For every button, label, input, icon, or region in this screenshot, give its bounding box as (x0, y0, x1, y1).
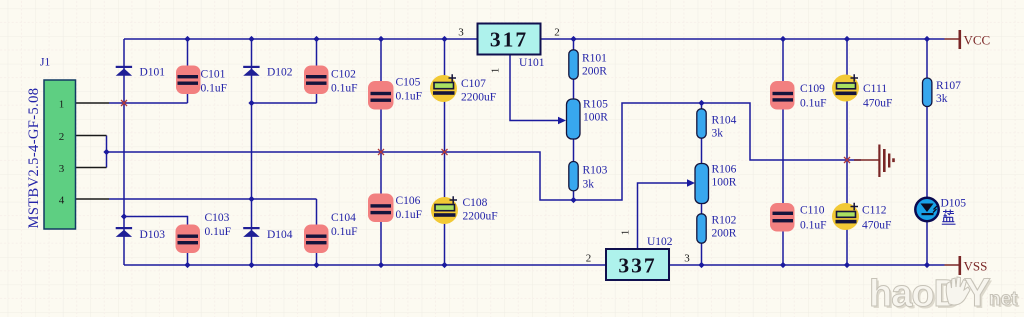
svg-text:R104: R104 (712, 115, 737, 127)
wire bridge column D102/D104 (251, 39, 253, 265)
svg-text:U101: U101 (519, 57, 545, 69)
wire C109-C110 middle lead (782, 100, 784, 212)
J1 pin stubs (76, 103, 110, 199)
svg-text:C112: C112 (862, 205, 887, 217)
svg-text:0.1uF: 0.1uF (201, 83, 228, 95)
svg-text:100R: 100R (583, 112, 608, 124)
svg-text:D102: D102 (267, 67, 293, 79)
svg-text:0.1uF: 0.1uF (800, 98, 827, 110)
label D105 colour 蓝 (drawn) (942, 210, 956, 225)
svg-text:D105: D105 (941, 198, 967, 210)
svg-text:317: 317 (490, 28, 528, 52)
capacitor C103 (176, 225, 201, 254)
ground symbol (854, 145, 895, 178)
wire left bridge column D101/D103 (123, 39, 125, 265)
junction C112 bottom (844, 262, 850, 268)
svg-text:C101: C101 (201, 69, 226, 81)
wire top VCC bus (124, 38, 945, 40)
svg-text:1: 1 (59, 99, 65, 111)
svg-text:VSS: VSS (964, 259, 988, 274)
regulator U102 337 (606, 249, 669, 280)
wire C111-C112 middle lead (846, 95, 848, 212)
svg-text:R105: R105 (583, 99, 608, 111)
junction R103 bottom (570, 197, 576, 203)
adjustable resistor R106 (695, 164, 709, 204)
svg-text:D103: D103 (140, 229, 166, 241)
svg-text:1: 1 (490, 68, 502, 74)
svg-text:2200uF: 2200uF (461, 92, 496, 104)
wire AC2 row from J1 pin4 (109, 198, 317, 200)
connector J1 (44, 80, 76, 229)
diode D104 (243, 227, 259, 237)
wire C105 upper lead (380, 39, 382, 92)
resistor R102 (697, 214, 706, 243)
svg-text:C109: C109 (800, 83, 825, 95)
junction C106 bottom (378, 262, 384, 268)
svg-text:0.1uF: 0.1uF (396, 209, 423, 221)
svg-text:3: 3 (59, 163, 65, 175)
resistor R101 (569, 50, 578, 79)
wire C109 upper lead (782, 39, 784, 92)
wire J1 pin2-pin3 bracket (106, 136, 108, 168)
svg-text:C111: C111 (863, 83, 887, 95)
junction D105 bottom (924, 262, 930, 268)
electrolytic capacitor C112 (832, 203, 859, 230)
resistor R103 (569, 162, 578, 191)
svg-text:J1: J1 (40, 57, 50, 69)
junction D102 top (248, 36, 254, 42)
wire C104 lower lead (316, 244, 318, 266)
wire AC1 row from J1 pin1 (109, 102, 188, 104)
arrow into R105 (558, 117, 566, 124)
svg-text:3: 3 (458, 27, 464, 39)
svg-text:0.1uF: 0.1uF (331, 226, 358, 238)
svg-text:3k: 3k (583, 179, 595, 191)
svg-text:3k: 3k (936, 93, 948, 105)
pin stub J1-3 (76, 167, 107, 169)
junction D102 bottom AC1 (248, 100, 254, 106)
svg-text:0.1uF: 0.1uF (331, 83, 358, 95)
svg-text:3k: 3k (712, 128, 724, 140)
junction C110 bottom (780, 262, 786, 268)
svg-text:2: 2 (554, 27, 560, 39)
svg-text:C105: C105 (396, 77, 421, 89)
no-ERC cross at C107 column / ground rail (442, 149, 448, 155)
svg-text:C107: C107 (461, 78, 486, 90)
svg-text:R101: R101 (582, 53, 607, 65)
junction J1 pins 2-3 to ground rail (103, 149, 109, 155)
junction R102 bottom (698, 262, 704, 268)
svg-text:MSTBV2.5-4-GF-5.08: MSTBV2.5-4-GF-5.08 (26, 88, 42, 229)
svg-text:C108: C108 (463, 197, 488, 209)
capacitor C110 (770, 203, 795, 232)
junction C108 bottom (441, 262, 447, 268)
capacitor C101 (176, 66, 201, 95)
wire U102 pin1 to R106 (638, 183, 688, 249)
junction R101 top (570, 36, 576, 42)
LED D105 (915, 198, 938, 221)
svg-text:4: 4 (59, 195, 65, 207)
svg-text:1: 1 (620, 230, 632, 236)
diode D103 (116, 227, 132, 237)
regulator U101 317 (478, 24, 541, 55)
capacitor C104 (304, 225, 329, 254)
junction C103 bottom (184, 262, 190, 268)
wire C101 upper lead (187, 39, 189, 76)
arrow into R106 (687, 179, 695, 186)
diode D101 (116, 66, 132, 76)
wire R101-R105-R103 column (573, 39, 575, 200)
junction R107 top (924, 36, 930, 42)
svg-text:C110: C110 (800, 205, 825, 217)
junction D104 bottom (248, 262, 254, 268)
svg-text:0.1uF: 0.1uF (205, 226, 232, 238)
svg-text:R107: R107 (936, 80, 961, 92)
wire bottom VSS bus (124, 264, 945, 266)
pin stub J1-2 (76, 135, 107, 137)
junction D104 top AC2 (248, 196, 254, 202)
svg-text:R103: R103 (583, 165, 608, 177)
svg-text:0.1uF: 0.1uF (800, 220, 827, 232)
svg-text:C106: C106 (396, 195, 421, 207)
watermark haodiy.net (869, 271, 1020, 317)
svg-text:2: 2 (59, 131, 65, 143)
svg-text:R102: R102 (712, 215, 737, 227)
no-ERC cross at D101 column / AC1 row (121, 100, 127, 106)
wire C104 upper lead (316, 199, 318, 234)
junction C102 top (313, 36, 319, 42)
svg-text:2: 2 (586, 253, 592, 265)
junction C109 top (780, 36, 786, 42)
wire C110 lower lead (782, 223, 784, 266)
wire C107 upper lead (444, 39, 446, 83)
svg-text:D104: D104 (267, 229, 293, 241)
svg-text:470uF: 470uF (862, 220, 891, 232)
junction C107 top (441, 36, 447, 42)
wire U101 pin1 to R105 (510, 55, 558, 121)
pin stub J1-1 (76, 102, 110, 104)
power port VSS (945, 256, 988, 275)
wire C107-C108 middle lead (444, 95, 446, 205)
svg-text:200R: 200R (712, 228, 737, 240)
svg-text:2200uF: 2200uF (463, 211, 498, 223)
wire C111 upper lead (846, 39, 848, 83)
electrolytic capacitor C108 (431, 196, 458, 224)
junction C105 top (378, 36, 384, 42)
resistor R104 (697, 109, 706, 138)
wire R104-R106-R102 column (701, 103, 703, 265)
electrolytic capacitor C107 (430, 74, 457, 102)
no-ERC cross at C111 column / ground rail (844, 157, 850, 163)
svg-text:VCC: VCC (964, 33, 991, 48)
svg-text:C103: C103 (205, 212, 230, 224)
adjustable resistor R105 (567, 99, 581, 139)
svg-text:R106: R106 (712, 164, 737, 176)
wire C103 lower lead (187, 244, 189, 265)
junction R104 top (698, 100, 704, 106)
capacitor C109 (770, 81, 795, 110)
wire C102 upper lead (316, 39, 318, 76)
wire C101 lower lead (187, 85, 189, 104)
capacitor C102 (304, 66, 329, 95)
wire middle ground rail (107, 103, 862, 200)
wire AC1 row D102 to C102 (252, 102, 317, 104)
svg-text:0.1uF: 0.1uF (396, 91, 423, 103)
svg-text:337: 337 (618, 254, 656, 278)
electrolytic capacitor C111 (832, 74, 859, 101)
resistor R107 (923, 78, 932, 107)
svg-text:U102: U102 (647, 236, 673, 248)
junction C111 top (844, 36, 850, 42)
wire C112 lower lead (846, 223, 848, 265)
junction C101 top (184, 36, 190, 42)
svg-text:100R: 100R (712, 177, 737, 189)
pin stub J1-4 (76, 198, 110, 200)
svg-text:3: 3 (684, 253, 690, 265)
wire R107-D105 column (926, 39, 928, 265)
svg-text:C102: C102 (331, 69, 356, 81)
svg-text:200R: 200R (582, 66, 607, 78)
junction C103 tap on D103 column (121, 213, 127, 219)
wire C105-C106 middle lead (380, 102, 382, 205)
svg-text:D101: D101 (140, 67, 166, 79)
junction C104 bottom (313, 262, 319, 268)
capacitor C106 (368, 194, 394, 223)
power port VCC (945, 30, 991, 49)
no-ERC cross at C105 column / ground rail (378, 149, 384, 155)
svg-text:net: net (989, 289, 1018, 310)
svg-text:470uF: 470uF (863, 98, 892, 110)
svg-text:C104: C104 (331, 212, 356, 224)
wire C106 lower lead (380, 214, 382, 265)
capacitor C105 (368, 81, 394, 110)
diode D102 (243, 66, 259, 76)
wire C108 lower lead (444, 217, 446, 266)
wire C103 tap from D103 cathode (124, 217, 188, 235)
wire C102 lower lead (316, 85, 318, 104)
